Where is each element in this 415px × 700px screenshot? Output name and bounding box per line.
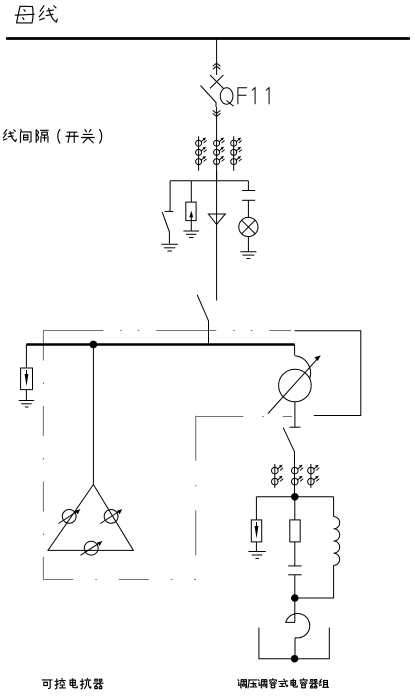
regulator winding arc <box>295 356 311 379</box>
indicator lamp <box>239 217 258 236</box>
low voltage thick bus <box>26 343 294 345</box>
arrester F1 body <box>186 202 196 221</box>
junction dot 4 <box>291 655 299 663</box>
earthing switch branch wire <box>169 181 171 207</box>
arrester F2 arrow <box>25 370 29 386</box>
wire capacitor to node <box>294 575 296 598</box>
regulator arrow <box>268 355 321 413</box>
chain enclosure top left box <box>43 330 291 332</box>
earthing switch stem <box>169 207 171 212</box>
wire to lamp <box>247 200 249 217</box>
breaker QF11 contact X <box>210 75 223 88</box>
thyristor element left <box>59 510 81 524</box>
regulator feed wire <box>294 345 296 356</box>
lamp ground wire <box>247 237 249 252</box>
series reactor <box>286 613 310 637</box>
arrester F2 ground wire <box>25 390 27 400</box>
regulator solid outline <box>295 331 361 416</box>
breaker blade <box>201 86 217 108</box>
junction dot <box>90 341 98 349</box>
aux horizontal wire <box>170 180 248 182</box>
arrester F3 ground wire <box>255 542 257 551</box>
thyristor element bottom <box>81 541 103 555</box>
regulator circle <box>279 369 312 402</box>
ground of arrester F2 <box>19 401 35 408</box>
disconnector 2 contact bar <box>290 426 301 428</box>
wire bus to breaker <box>216 38 218 75</box>
ground of arrester F3 <box>249 552 266 559</box>
label 母线 busbar <box>15 6 57 23</box>
label 线间隔(开关) <box>3 129 101 143</box>
discharge resistor branch wire <box>294 497 296 520</box>
disconnector 2 blade <box>283 428 294 497</box>
arrester F2 body <box>21 368 33 390</box>
arrester F3 branch wire <box>255 497 257 520</box>
arrester F3 body <box>251 520 261 542</box>
cable terminal triangle <box>208 214 225 225</box>
wire resistor to capacitor <box>294 542 296 566</box>
CT column right stub <box>233 136 235 171</box>
ground of lamp <box>240 252 256 259</box>
chain enclosure left edge <box>42 331 44 580</box>
disconnector blade <box>197 295 208 345</box>
earthing switch contact bar <box>165 210 174 212</box>
delta reactor triangle <box>48 485 133 551</box>
regulator output wire <box>294 402 296 427</box>
chain enclosure bottom <box>43 579 196 581</box>
chain enclosure shared right edge <box>195 416 197 580</box>
capacitor plate 2 <box>242 199 255 201</box>
inductor coil <box>334 517 340 566</box>
CT2 column right stub <box>310 464 312 488</box>
CT group 3x3 <box>196 138 242 165</box>
CT column left stub <box>198 136 200 171</box>
earthing switch blade <box>162 212 169 243</box>
inductor branch wire lower <box>295 565 334 598</box>
wire node to reactor <box>294 598 296 622</box>
label 调压调容式电容器组 <box>238 679 328 688</box>
capacitor plate 1 <box>242 190 255 192</box>
CT group 2x3 <box>272 465 320 485</box>
ground of earthing switch <box>161 244 178 251</box>
label 可控电抗器 <box>42 678 103 688</box>
arrester F1 arrow <box>189 211 193 221</box>
capacitor C plate 2 <box>288 574 301 576</box>
arrester F3 arrow <box>255 522 259 539</box>
discharge resistor body <box>290 520 300 542</box>
arrester F2 branch wire <box>25 345 27 369</box>
arrester F1 branch wire <box>190 181 192 202</box>
bottom bracket <box>259 628 329 659</box>
chain enclosure right box top <box>196 416 292 418</box>
inductor branch wire upper <box>333 497 335 517</box>
voltage indicator capacitor branch wire <box>247 181 249 191</box>
wire reactor to bottom node <box>294 638 296 659</box>
wire breaker to CT <box>216 107 218 181</box>
capacitor C plate 1 <box>288 565 301 567</box>
plug contact lower (chevrons) <box>213 110 221 116</box>
capacitor bank top bus <box>256 496 333 498</box>
ground of arrester F1 <box>183 231 199 238</box>
arrester F1 ground wire <box>190 221 192 231</box>
junction dot 2 <box>291 493 299 501</box>
plug contact upper (chevrons) <box>213 63 221 69</box>
label QF11 <box>220 88 269 107</box>
busbar 母线 <box>6 37 410 40</box>
junction dot 3 <box>291 594 299 602</box>
wire CT to aux tee <box>216 171 218 301</box>
thyristor element right <box>100 510 122 524</box>
reactor feeder wire <box>92 345 94 485</box>
CT2 column left stub <box>274 464 276 488</box>
